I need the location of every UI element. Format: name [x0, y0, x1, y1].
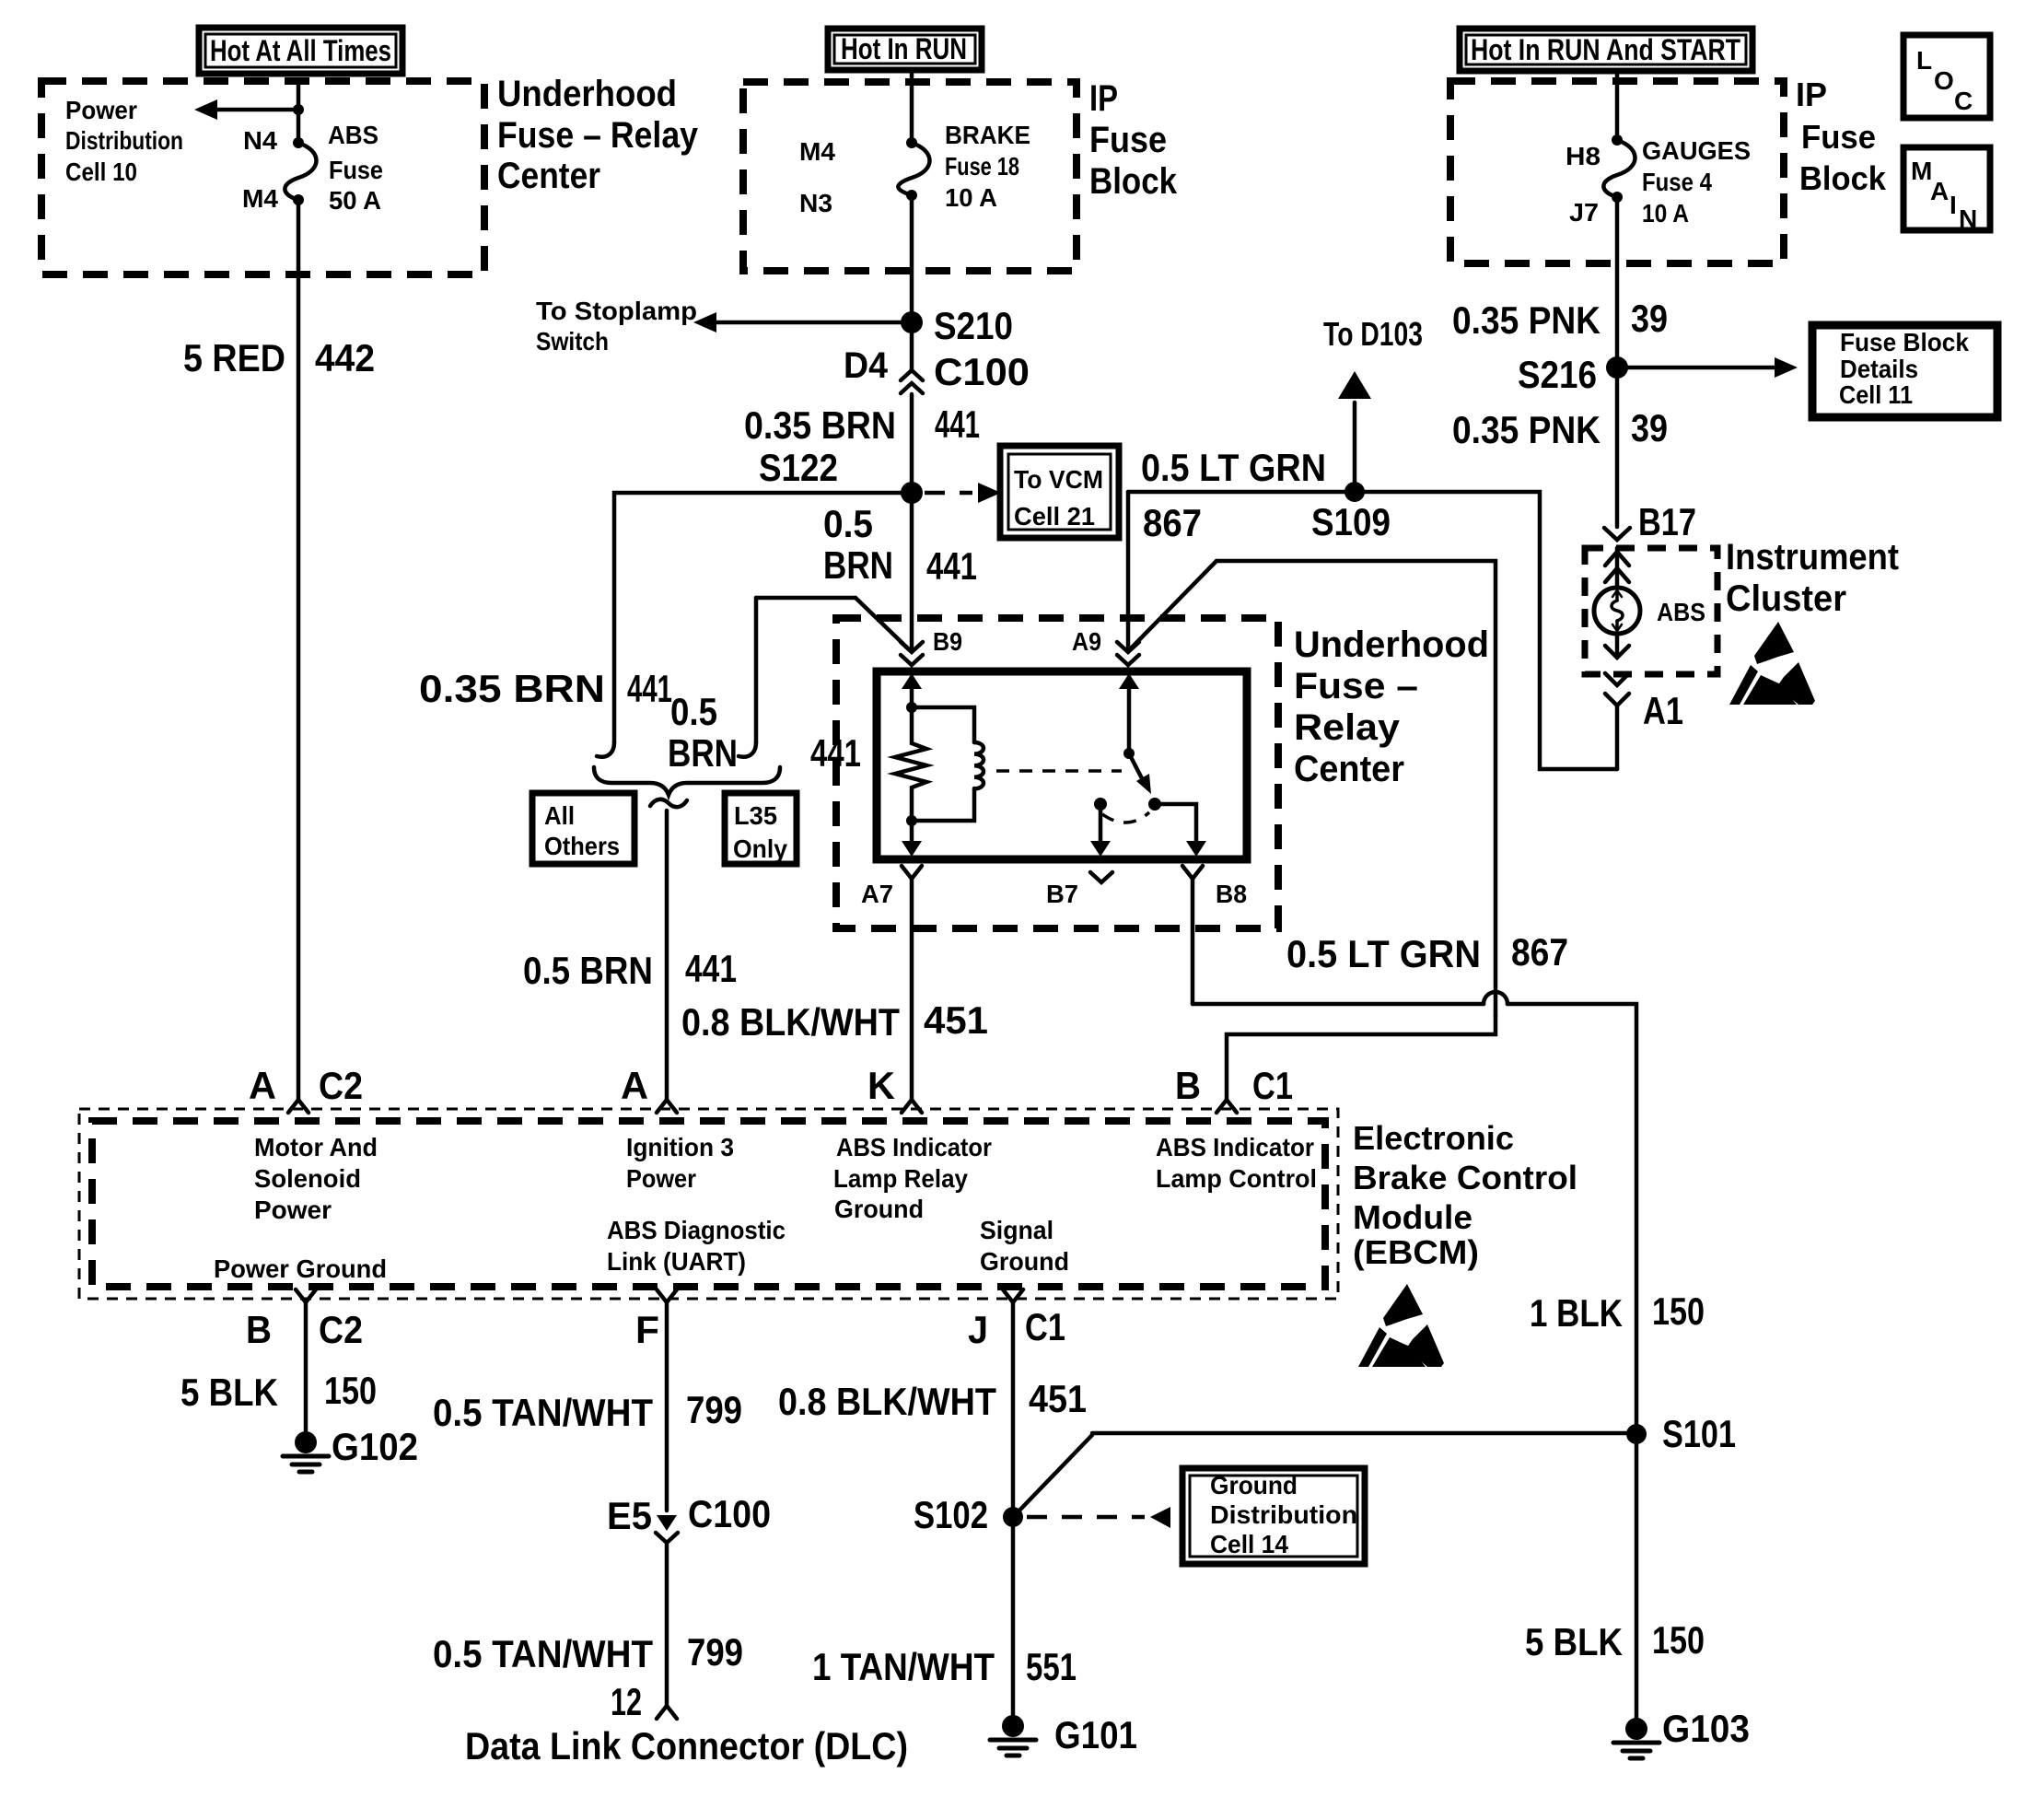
svg-text:Ground: Ground [834, 1195, 924, 1223]
svg-text:GAUGES: GAUGES [1642, 136, 1751, 165]
svg-text:Only: Only [733, 834, 787, 863]
svg-text:A: A [1930, 177, 1949, 205]
svg-text:Power: Power [254, 1196, 332, 1224]
svg-text:441: 441 [926, 544, 977, 588]
svg-text:B: B [246, 1308, 272, 1351]
svg-text:Solenoid: Solenoid [254, 1164, 361, 1193]
svg-text:Fuse: Fuse [329, 156, 383, 184]
svg-text:N4: N4 [243, 126, 277, 155]
svg-text:S216: S216 [1518, 353, 1597, 396]
svg-text:Ground: Ground [1210, 1471, 1298, 1499]
svg-text:441: 441 [935, 402, 980, 446]
svg-text:Distribution: Distribution [65, 126, 183, 155]
svg-text:Motor And: Motor And [254, 1133, 378, 1161]
svg-text:Fuse Block: Fuse Block [1840, 328, 1969, 356]
svg-text:ABS: ABS [328, 121, 378, 149]
svg-text:451: 451 [1029, 1377, 1087, 1420]
svg-text:Lamp Control: Lamp Control [1156, 1164, 1317, 1193]
svg-text:Details: Details [1840, 355, 1918, 383]
svg-text:F: F [635, 1308, 659, 1351]
svg-text:Cluster: Cluster [1726, 578, 1846, 619]
svg-text:Underhood: Underhood [1294, 624, 1489, 665]
svg-text:IP: IP [1089, 78, 1118, 119]
svg-text:50 A: 50 A [329, 186, 381, 215]
svg-text:To Stoplamp: To Stoplamp [536, 297, 697, 325]
svg-text:Fuse –: Fuse – [1294, 666, 1418, 706]
svg-text:L: L [1916, 46, 1932, 75]
svg-text:C1: C1 [1252, 1064, 1293, 1107]
svg-text:N3: N3 [799, 189, 832, 217]
svg-text:Fuse 18: Fuse 18 [945, 152, 1019, 181]
svg-text:Cell 21: Cell 21 [1014, 502, 1095, 531]
svg-text:E5: E5 [607, 1494, 652, 1537]
svg-text:G102: G102 [332, 1425, 418, 1468]
svg-text:A: A [249, 1064, 276, 1107]
svg-text:0.35 BRN: 0.35 BRN [419, 667, 605, 710]
svg-text:Block: Block [1799, 159, 1887, 197]
svg-text:Cell 10: Cell 10 [65, 157, 137, 186]
svg-text:Fuse – Relay: Fuse – Relay [497, 115, 699, 156]
svg-text:0.5 LT GRN: 0.5 LT GRN [1141, 446, 1326, 489]
svg-text:0.35 PNK: 0.35 PNK [1452, 298, 1600, 342]
svg-text:ABS Indicator: ABS Indicator [1156, 1133, 1314, 1161]
svg-text:G101: G101 [1054, 1713, 1137, 1756]
svg-text:12: 12 [611, 1680, 642, 1723]
svg-text:A: A [621, 1064, 648, 1107]
svg-text:0.5 TAN/WHT: 0.5 TAN/WHT [433, 1632, 653, 1675]
svg-text:C100: C100 [688, 1492, 771, 1535]
svg-text:BRAKE: BRAKE [945, 121, 1030, 149]
svg-text:ABS Indicator: ABS Indicator [836, 1133, 992, 1161]
svg-text:799: 799 [686, 1388, 742, 1431]
svg-text:G103: G103 [1662, 1707, 1750, 1750]
svg-text:Hot At All Times: Hot At All Times [210, 34, 391, 67]
svg-text:ABS Diagnostic: ABS Diagnostic [607, 1216, 786, 1244]
svg-text:B8: B8 [1216, 880, 1247, 908]
svg-text:B17: B17 [1638, 500, 1696, 543]
svg-text:Cell 14: Cell 14 [1210, 1530, 1288, 1558]
svg-text:C1: C1 [1025, 1305, 1065, 1348]
svg-text:Fuse: Fuse [1801, 118, 1876, 156]
svg-text:0.8 BLK/WHT: 0.8 BLK/WHT [778, 1380, 996, 1423]
svg-text:10 A: 10 A [945, 183, 997, 212]
svg-text:D4: D4 [844, 345, 889, 386]
svg-text:N: N [1959, 204, 1977, 233]
svg-text:451: 451 [924, 998, 988, 1042]
svg-text:(EBCM): (EBCM) [1353, 1233, 1479, 1271]
svg-text:I: I [1950, 191, 1957, 219]
svg-text:0.5: 0.5 [823, 502, 873, 545]
svg-text:441: 441 [627, 667, 672, 710]
svg-text:S122: S122 [759, 446, 838, 489]
svg-text:Data Link Connector (DLC): Data Link Connector (DLC) [465, 1724, 908, 1767]
svg-text:0.5 LT GRN: 0.5 LT GRN [1286, 932, 1481, 975]
svg-text:867: 867 [1143, 501, 1202, 544]
svg-text:Link (UART): Link (UART) [607, 1247, 746, 1276]
svg-text:0.8 BLK/WHT: 0.8 BLK/WHT [681, 1000, 900, 1044]
svg-text:Module: Module [1353, 1198, 1472, 1236]
svg-text:1 BLK: 1 BLK [1530, 1291, 1623, 1335]
svg-text:0.5 TAN/WHT: 0.5 TAN/WHT [433, 1391, 653, 1434]
svg-text:5 RED: 5 RED [183, 336, 285, 379]
svg-text:B9: B9 [933, 627, 962, 656]
svg-text:0.35 BRN: 0.35 BRN [744, 403, 896, 447]
svg-text:799: 799 [687, 1630, 743, 1674]
svg-text:S101: S101 [1662, 1412, 1736, 1455]
svg-text:B: B [1175, 1064, 1201, 1107]
svg-text:Power: Power [626, 1164, 696, 1193]
svg-text:M: M [1911, 157, 1932, 185]
svg-text:S102: S102 [914, 1493, 988, 1536]
svg-text:Hot In RUN: Hot In RUN [841, 32, 967, 65]
svg-text:1 TAN/WHT: 1 TAN/WHT [812, 1645, 995, 1688]
svg-text:BRN: BRN [823, 543, 893, 587]
svg-text:To D103: To D103 [1323, 315, 1423, 353]
svg-text:10 A: 10 A [1642, 199, 1689, 227]
svg-text:5 BLK: 5 BLK [180, 1371, 278, 1414]
svg-text:Fuse: Fuse [1089, 120, 1167, 160]
svg-text:C2: C2 [319, 1064, 363, 1107]
svg-text:0.5: 0.5 [670, 690, 717, 733]
svg-text:M4: M4 [242, 184, 278, 213]
svg-text:39: 39 [1631, 406, 1668, 449]
svg-text:551: 551 [1026, 1645, 1077, 1688]
svg-text:Ignition 3: Ignition 3 [626, 1133, 734, 1161]
svg-text:Cell 11: Cell 11 [1839, 380, 1913, 409]
svg-text:Instrument: Instrument [1726, 537, 1899, 577]
svg-text:Center: Center [1294, 749, 1404, 789]
svg-text:867: 867 [1511, 930, 1568, 974]
svg-text:S210: S210 [934, 304, 1013, 347]
svg-text:Power Ground: Power Ground [214, 1254, 387, 1283]
svg-text:5 BLK: 5 BLK [1525, 1620, 1623, 1663]
svg-text:S109: S109 [1311, 500, 1391, 543]
svg-text:Hot In RUN And START: Hot In RUN And START [1471, 33, 1740, 66]
svg-text:39: 39 [1631, 297, 1668, 340]
svg-text:IP: IP [1796, 76, 1827, 113]
svg-text:0.5 BRN: 0.5 BRN [523, 949, 653, 992]
svg-text:150: 150 [1652, 1289, 1705, 1333]
svg-text:Signal: Signal [980, 1216, 1053, 1244]
svg-text:To VCM: To VCM [1014, 465, 1103, 494]
svg-text:BRN: BRN [668, 731, 738, 775]
svg-text:All: All [544, 801, 575, 830]
svg-text:Underhood: Underhood [497, 74, 677, 114]
svg-text:Brake Control: Brake Control [1353, 1159, 1577, 1196]
svg-text:150: 150 [324, 1369, 377, 1412]
svg-text:L35: L35 [734, 801, 777, 830]
svg-text:Center: Center [497, 156, 600, 196]
svg-text:Ground: Ground [980, 1247, 1069, 1276]
svg-text:Lamp Relay: Lamp Relay [833, 1164, 968, 1193]
svg-text:M4: M4 [799, 137, 835, 166]
svg-text:H8: H8 [1566, 142, 1600, 170]
svg-text:150: 150 [1652, 1618, 1705, 1662]
svg-text:K: K [867, 1064, 895, 1107]
svg-text:Relay: Relay [1294, 707, 1401, 748]
svg-text:ABS: ABS [1657, 598, 1705, 626]
svg-text:Electronic: Electronic [1353, 1119, 1514, 1157]
svg-text:A9: A9 [1072, 627, 1101, 656]
svg-text:Switch: Switch [536, 327, 609, 356]
svg-text:J7: J7 [1569, 198, 1599, 227]
svg-text:C2: C2 [319, 1308, 363, 1351]
svg-text:441: 441 [685, 947, 737, 990]
svg-text:J: J [968, 1308, 988, 1351]
svg-text:Power: Power [65, 96, 137, 124]
svg-text:442: 442 [315, 336, 375, 379]
svg-text:A7: A7 [861, 880, 893, 908]
svg-text:0.35 PNK: 0.35 PNK [1452, 408, 1600, 451]
svg-text:B7: B7 [1046, 880, 1078, 908]
svg-text:O: O [1934, 66, 1954, 95]
svg-text:Fuse 4: Fuse 4 [1642, 168, 1712, 196]
svg-text:Distribution: Distribution [1210, 1500, 1357, 1529]
svg-text:A1: A1 [1643, 689, 1683, 732]
svg-text:C: C [1954, 87, 1973, 115]
svg-text:C100: C100 [934, 350, 1030, 393]
svg-text:Others: Others [544, 832, 620, 860]
svg-text:Block: Block [1089, 161, 1178, 202]
